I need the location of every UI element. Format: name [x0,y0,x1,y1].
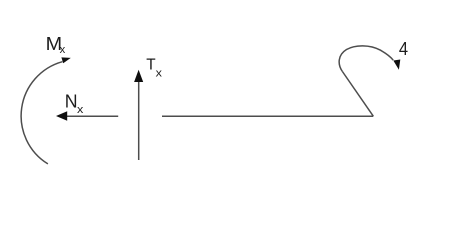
applied moment arc (4) [339,46,393,72]
svg-text:4: 4 [399,39,408,59]
arrowhead of T_x [134,70,143,82]
arrowhead of applied moment [393,60,400,70]
arrowhead of N_x [56,111,67,120]
arrowhead of moment M_x [61,57,70,63]
svg-text:T: T [146,56,156,73]
moment arc M_x [21,62,62,164]
svg-text:x: x [60,44,66,56]
svg-text:x: x [77,104,84,116]
shear force arrow T_x (shaft) [138,79,140,160]
svg-text:N: N [65,91,78,111]
normal force arrow N_x (shaft) [64,115,118,117]
beam line [162,115,373,117]
svg-text:x: x [156,67,163,79]
diagonal cut face [342,72,373,117]
